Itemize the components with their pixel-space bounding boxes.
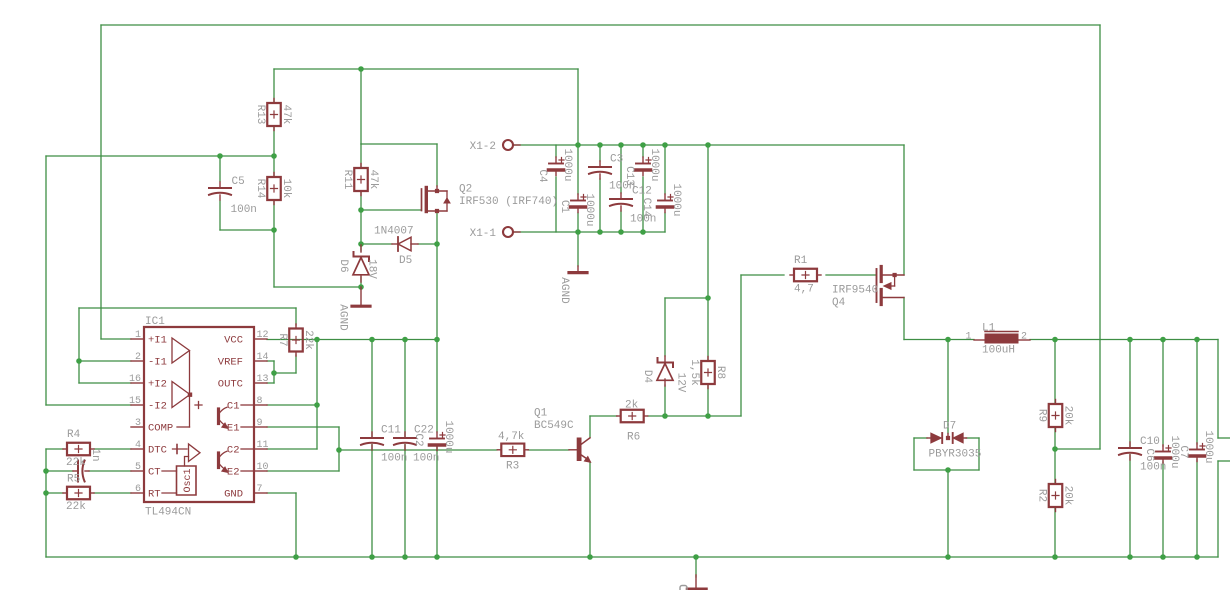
svg-text:22k: 22k [66,457,86,469]
svg-text:R7: R7 [276,333,288,346]
svg-text:1000u: 1000u [442,420,454,453]
svg-text:C4: C4 [536,169,548,183]
svg-text:5: 5 [135,462,141,473]
svg-text:C10: C10 [1140,436,1160,448]
svg-text:2: 2 [135,352,141,363]
svg-text:R11: R11 [341,170,353,190]
svg-text:1n: 1n [89,448,101,461]
svg-text:X1-2: X1-2 [470,141,496,153]
svg-text:3: 3 [135,418,141,429]
svg-text:C2: C2 [227,445,240,457]
svg-text:C7: C7 [1177,445,1189,458]
svg-text:VREF: VREF [218,357,243,369]
svg-text:C14: C14 [640,198,652,218]
svg-text:1000u: 1000u [670,183,682,216]
svg-text:OUTC: OUTC [218,379,243,391]
svg-text:C3: C3 [610,154,623,166]
svg-text:12: 12 [257,330,269,341]
svg-text:E1: E1 [227,423,240,435]
svg-text:1: 1 [965,331,971,342]
svg-text:R14: R14 [254,179,266,199]
svg-text:C5: C5 [232,176,245,188]
svg-text:TL494CN: TL494CN [145,507,191,519]
svg-text:COMP: COMP [148,423,173,435]
svg-text:IRF9540: IRF9540 [832,285,878,297]
svg-text:1000u: 1000u [583,193,595,226]
svg-text:R3: R3 [506,461,519,473]
svg-text:13: 13 [257,374,269,385]
svg-text:15: 15 [129,396,141,407]
svg-text:1,5k: 1,5k [688,359,700,386]
svg-text:47k: 47k [367,170,379,190]
svg-text:PBYR3035: PBYR3035 [929,449,982,461]
svg-text:D7: D7 [943,421,956,433]
svg-text:100n: 100n [231,204,257,216]
svg-text:R13: R13 [254,105,266,125]
svg-text:100n: 100n [381,453,407,465]
svg-text:Q1: Q1 [534,408,548,420]
svg-text:R8: R8 [714,366,726,379]
svg-text:+I1: +I1 [148,335,167,347]
svg-text:1000u: 1000u [648,148,660,181]
svg-text:4,7k: 4,7k [498,431,525,443]
svg-text:R9: R9 [1036,409,1048,422]
svg-text:-I1: -I1 [148,357,167,369]
svg-text:BC549C: BC549C [534,420,574,432]
svg-text:1000u: 1000u [1202,430,1214,463]
svg-text:C12: C12 [632,186,652,198]
svg-text:RT: RT [148,489,161,501]
svg-text:22k: 22k [302,330,314,350]
svg-text:R6: R6 [627,432,640,444]
svg-text:4,7: 4,7 [794,284,814,296]
svg-text:4: 4 [135,440,141,451]
svg-text:GND: GND [224,489,243,501]
svg-text:D4: D4 [641,370,653,384]
svg-text:C6: C6 [1143,448,1155,461]
svg-text:12V: 12V [675,373,687,393]
svg-text:AGND: AGND [558,277,570,304]
svg-text:Q4: Q4 [832,297,846,309]
svg-text:R4: R4 [67,429,81,441]
svg-text:100uH: 100uH [982,345,1015,357]
svg-text:2k: 2k [625,400,639,412]
svg-text:2: 2 [1021,331,1027,342]
svg-text:18V: 18V [366,259,378,279]
svg-text:11: 11 [257,440,269,451]
svg-text:D6: D6 [337,259,349,272]
svg-text:100n: 100n [1140,462,1166,474]
svg-text:8: 8 [257,396,263,407]
svg-text:47k: 47k [280,105,292,125]
svg-text:X1-1: X1-1 [470,228,497,240]
svg-text:6: 6 [135,484,141,495]
svg-text:CT: CT [148,467,161,479]
svg-text:R5: R5 [67,474,80,486]
svg-text:R2: R2 [1036,489,1048,502]
svg-text:Osc1: Osc1 [183,468,194,492]
svg-text:1N4007: 1N4007 [374,226,414,238]
svg-text:AGND: AGND [337,304,349,331]
svg-text:20k: 20k [1062,486,1074,506]
svg-text:+I2: +I2 [148,379,167,391]
svg-text:9: 9 [257,418,263,429]
svg-text:10k: 10k [280,179,292,199]
svg-text:1000u: 1000u [561,148,573,181]
svg-text:14: 14 [257,352,269,363]
svg-text:100n: 100n [413,453,439,465]
svg-text:VCC: VCC [224,335,243,347]
svg-text:R1: R1 [794,255,808,267]
svg-text:1: 1 [135,330,141,341]
svg-text:L1: L1 [982,323,996,335]
svg-text:C1: C1 [558,200,570,214]
svg-text:Q2: Q2 [459,184,472,196]
svg-text:D5: D5 [399,255,412,267]
svg-text:DTC: DTC [148,445,167,457]
svg-text:E2: E2 [227,467,240,479]
svg-text:20k: 20k [1062,406,1074,426]
svg-text:C11: C11 [381,425,401,437]
svg-text:C13: C13 [623,166,635,186]
svg-text:C1: C1 [227,401,240,413]
svg-text:IRF530 (IRF740): IRF530 (IRF740) [459,196,558,208]
svg-text:7: 7 [257,484,263,495]
svg-text:22k: 22k [66,501,86,513]
svg-text:IC1: IC1 [145,316,165,328]
svg-text:16: 16 [129,374,141,385]
svg-text:C2: C2 [412,433,424,446]
svg-text:10: 10 [257,462,269,473]
svg-text:-I2: -I2 [148,401,167,413]
